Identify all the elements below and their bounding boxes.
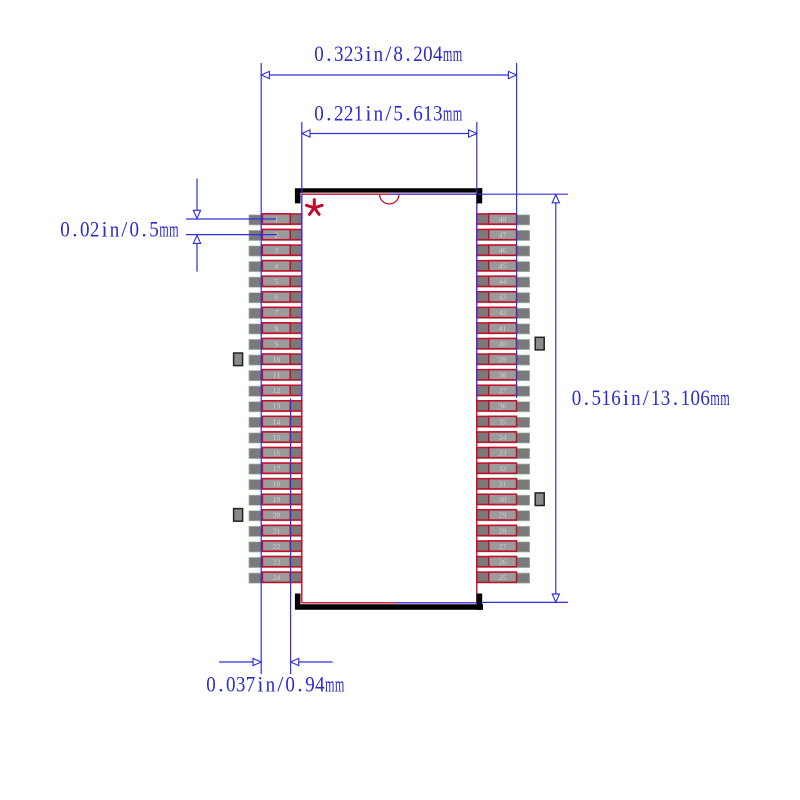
svg-text:29: 29 — [499, 511, 507, 520]
svg-text:40: 40 — [499, 339, 507, 348]
svg-text:.: . — [218, 672, 224, 697]
svg-text:/: / — [643, 385, 650, 410]
svg-text:30: 30 — [499, 495, 507, 504]
svg-text:10: 10 — [273, 355, 281, 364]
svg-text:21: 21 — [273, 526, 281, 535]
svg-text:m: m — [325, 672, 335, 697]
svg-text:i: i — [101, 217, 107, 242]
svg-text:43: 43 — [499, 293, 507, 302]
svg-text:0: 0 — [691, 385, 701, 410]
svg-text:0: 0 — [314, 41, 324, 66]
svg-text:22: 22 — [273, 542, 281, 551]
svg-text:0: 0 — [314, 101, 324, 126]
svg-text:2: 2 — [413, 41, 423, 66]
svg-text:42: 42 — [499, 308, 507, 317]
svg-text:/: / — [121, 217, 128, 242]
svg-text:5: 5 — [275, 277, 279, 286]
svg-text:11: 11 — [273, 371, 281, 380]
svg-text:i: i — [257, 672, 263, 697]
svg-text:31: 31 — [499, 480, 507, 489]
svg-text:36: 36 — [499, 402, 507, 411]
svg-text:0: 0 — [572, 385, 582, 410]
svg-text:2: 2 — [344, 41, 354, 66]
svg-text:1: 1 — [423, 101, 433, 126]
svg-text:.: . — [326, 41, 332, 66]
svg-text:.: . — [326, 101, 332, 126]
svg-text:33: 33 — [499, 448, 507, 457]
svg-text:.: . — [141, 217, 147, 242]
svg-text:.: . — [584, 385, 590, 410]
svg-text:0: 0 — [60, 217, 70, 242]
svg-text:0: 0 — [226, 672, 236, 697]
svg-text:35: 35 — [499, 417, 507, 426]
svg-text:1: 1 — [681, 385, 691, 410]
svg-text:i: i — [365, 101, 371, 126]
svg-text:34: 34 — [499, 433, 507, 442]
svg-text:n: n — [110, 217, 120, 242]
svg-text:27: 27 — [499, 542, 507, 551]
svg-text:.: . — [297, 672, 303, 697]
svg-text:39: 39 — [499, 355, 507, 364]
svg-text:3: 3 — [354, 41, 364, 66]
svg-text:5: 5 — [592, 385, 602, 410]
svg-text:m: m — [169, 217, 179, 242]
svg-text:14: 14 — [273, 417, 281, 426]
svg-text:7: 7 — [246, 672, 256, 697]
svg-text:18: 18 — [273, 480, 281, 489]
svg-text:3: 3 — [236, 672, 246, 697]
svg-text:3: 3 — [661, 385, 671, 410]
svg-text:m: m — [335, 672, 345, 697]
svg-text:2: 2 — [90, 217, 100, 242]
svg-text:.: . — [72, 217, 78, 242]
svg-text:8: 8 — [275, 324, 279, 333]
svg-text:15: 15 — [273, 433, 281, 442]
svg-text:m: m — [453, 41, 463, 66]
svg-text:2: 2 — [344, 101, 354, 126]
svg-text:.: . — [405, 101, 411, 126]
svg-text:23: 23 — [273, 557, 281, 566]
svg-text:41: 41 — [499, 324, 507, 333]
svg-text:25: 25 — [499, 573, 507, 582]
svg-text:8: 8 — [393, 41, 403, 66]
svg-text:2: 2 — [334, 101, 344, 126]
svg-text:m: m — [443, 101, 453, 126]
svg-text:12: 12 — [273, 386, 281, 395]
svg-text:24: 24 — [273, 573, 281, 582]
svg-text:n: n — [374, 101, 384, 126]
svg-text:4: 4 — [275, 262, 279, 271]
svg-text:20: 20 — [273, 511, 281, 520]
svg-text:n: n — [266, 672, 276, 697]
svg-text:m: m — [159, 217, 169, 242]
svg-text:i: i — [365, 41, 371, 66]
svg-text:m: m — [443, 41, 453, 66]
svg-text:.: . — [673, 385, 679, 410]
svg-text:i: i — [623, 385, 629, 410]
svg-text:9: 9 — [275, 339, 279, 348]
svg-text:2: 2 — [275, 230, 279, 239]
svg-text:44: 44 — [499, 277, 507, 286]
svg-text:28: 28 — [499, 526, 507, 535]
svg-text:/: / — [385, 101, 392, 126]
svg-text:.: . — [405, 41, 411, 66]
svg-text:0: 0 — [423, 41, 433, 66]
svg-text:4: 4 — [315, 672, 325, 697]
svg-text:0: 0 — [285, 672, 295, 697]
svg-text:3: 3 — [433, 101, 443, 126]
svg-text:/: / — [385, 41, 392, 66]
svg-text:5: 5 — [149, 217, 159, 242]
svg-text:13: 13 — [273, 402, 281, 411]
svg-text:n: n — [374, 41, 384, 66]
svg-text:6: 6 — [611, 385, 621, 410]
svg-text:m: m — [720, 385, 730, 410]
svg-text:9: 9 — [305, 672, 315, 697]
svg-text:47: 47 — [499, 230, 507, 239]
svg-text:32: 32 — [499, 464, 507, 473]
svg-text:3: 3 — [334, 41, 344, 66]
svg-text:7: 7 — [275, 308, 279, 317]
svg-text:6: 6 — [275, 293, 279, 302]
svg-text:6: 6 — [413, 101, 423, 126]
svg-text:37: 37 — [499, 386, 507, 395]
svg-text:16: 16 — [273, 448, 281, 457]
svg-text:45: 45 — [499, 262, 507, 271]
svg-text:0: 0 — [206, 672, 216, 697]
svg-text:m: m — [710, 385, 720, 410]
svg-text:1: 1 — [651, 385, 661, 410]
svg-text:46: 46 — [499, 246, 507, 255]
svg-text:19: 19 — [273, 495, 281, 504]
svg-text:1: 1 — [354, 101, 364, 126]
svg-text:n: n — [631, 385, 641, 410]
svg-text:4: 4 — [433, 41, 443, 66]
svg-text:0: 0 — [130, 217, 140, 242]
svg-text:1: 1 — [275, 215, 279, 224]
svg-text:0: 0 — [80, 217, 90, 242]
svg-text:38: 38 — [499, 371, 507, 380]
svg-text:3: 3 — [275, 246, 279, 255]
svg-text:17: 17 — [273, 464, 281, 473]
svg-text:1: 1 — [601, 385, 611, 410]
svg-text:48: 48 — [499, 215, 507, 224]
svg-text:6: 6 — [700, 385, 710, 410]
svg-text:/: / — [277, 672, 284, 697]
svg-text:26: 26 — [499, 557, 507, 566]
svg-text:5: 5 — [393, 101, 403, 126]
svg-text:m: m — [453, 101, 463, 126]
